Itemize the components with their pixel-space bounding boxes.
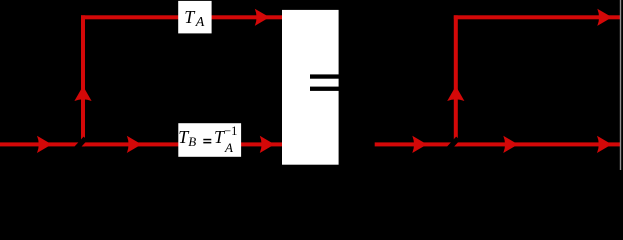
box T_B = T_A^-1 [178, 123, 241, 157]
wire: left diagram bottom horizontal line [0, 142, 283, 146]
wire: left diagram vertical line [81, 15, 85, 146]
crossing slash: right junction [447, 138, 458, 150]
arrowhead: left bottom line, third after T_B box (tip x=274.5) [260, 136, 275, 153]
faint page edge line at right [620, 0, 621, 170]
arrowhead: left top line (tip x=269.5) [255, 9, 270, 26]
equals sign upper bar [310, 74, 339, 78]
big white equality box [282, 10, 339, 165]
arrowhead: right bottom line, after junction (tip x=518) [503, 136, 518, 153]
arrowhead: left bottom line, second (tip x=141.5) [127, 136, 142, 153]
wire: left diagram top horizontal line [81, 15, 283, 19]
arrowhead: left vertical line, pointing up (tip y=86) [74, 86, 91, 101]
crossing slash: left junction [75, 138, 86, 150]
arrowhead: right vertical line, pointing up (tip y=86) [447, 86, 464, 101]
box T_A [178, 1, 211, 34]
equals sign lower bar [310, 87, 339, 91]
arrowhead: right bottom line, before junction (tip x=427) [412, 136, 427, 153]
wire: right diagram top horizontal line [454, 15, 620, 19]
arrowhead: right bottom line, end (tip x=611.7) [597, 136, 612, 153]
arrowhead: right top line, end (tip x=612) [597, 9, 612, 26]
equals sign in T_B label [203, 139, 211, 141]
arrowhead: left bottom line, first (tip x=51.7) [37, 136, 52, 153]
wire: right diagram bottom horizontal line [375, 142, 620, 146]
wire: right diagram vertical line [454, 15, 458, 146]
